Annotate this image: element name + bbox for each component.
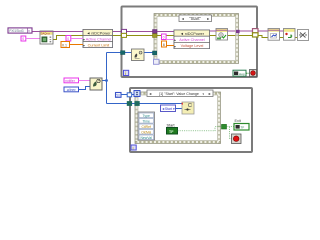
while loop top	[122, 7, 258, 78]
svg-text:CtlRef: CtlRef	[141, 125, 150, 129]
tunnel olive loop-right	[253, 33, 259, 37]
event data node	[138, 112, 155, 140]
event structure bottom border	[135, 92, 221, 144]
tunnel teal event-left (notifier)	[153, 51, 157, 55]
property node niDCPower (inner event case)	[174, 30, 210, 49]
wire green branch to stop	[230, 127, 232, 139]
wire pink to init icon	[26, 38, 40, 40]
tunnel purple loop-left	[122, 29, 127, 33]
svg-text:0: 0	[22, 37, 24, 41]
svg-text:"Start": "Start"	[189, 16, 201, 21]
wire pink inner	[166, 39, 174, 41]
event header top: "Start"	[179, 15, 212, 22]
Start control refnum	[161, 105, 176, 112]
svg-text:Type: Type	[143, 114, 150, 118]
svg-text:Exit: Exit	[235, 119, 242, 123]
wire refnum stub	[176, 108, 183, 110]
svg-text:8: 8	[163, 43, 165, 47]
svg-text:0: 0	[67, 37, 69, 41]
wire orange inner	[167, 45, 175, 47]
svg-text:OldVal: OldVal	[141, 130, 151, 134]
loop condition terminal (top loop)	[250, 70, 257, 77]
svg-text:NewVal: NewVal	[140, 136, 152, 140]
wire pink to property node	[71, 38, 83, 40]
svg-text:stop: stop	[239, 72, 245, 76]
tunnel blue event-left (timeout feed)	[154, 59, 160, 64]
purple junction (event right)	[236, 30, 240, 33]
event structure top border	[154, 14, 239, 64]
iteration terminal i (top loop)	[124, 70, 129, 76]
svg-text:◄ niDCPower: ◄ niDCPower	[86, 31, 111, 35]
property node niDCPower (outer)	[83, 30, 113, 48]
svg-text:Active Channel: Active Channel	[86, 37, 112, 41]
wire error olive main	[53, 36, 298, 40]
svg-text:i: i	[133, 145, 134, 150]
svg-text:0.1: 0.1	[62, 43, 67, 47]
svg-text:Time: Time	[142, 119, 150, 123]
wire green to condition	[246, 72, 250, 74]
close VI icon 2	[284, 29, 296, 41]
notifier string constant	[64, 78, 79, 83]
orange constant 0.1	[61, 42, 70, 48]
event header bottom: [1] "Start": Value Change	[147, 90, 213, 97]
tunnel blue event-left (ref)	[135, 102, 140, 106]
tunnel blue loop-left (wait wire)	[121, 51, 125, 55]
simple error handler box	[298, 30, 309, 41]
svg-text:0: 0	[163, 36, 165, 40]
stop button terminal (top loop)	[233, 70, 246, 76]
timeout hourglass terminal	[134, 91, 140, 97]
svg-text:PXI1Slot3: PXI1Slot3	[9, 29, 23, 33]
Wait (ms) icon	[132, 49, 145, 61]
close VI icon 1	[268, 29, 280, 41]
svg-text:TF: TF	[241, 126, 245, 130]
svg-text:►: ►	[208, 92, 211, 96]
while loop bottom	[130, 88, 252, 152]
svg-text:◄line▾: ◄line▾	[66, 88, 76, 92]
timeout constant bottom	[116, 93, 122, 98]
VI icon inner (configure/initiate)	[216, 29, 228, 41]
wire pink notifier	[79, 80, 91, 82]
svg-text:50: 50	[116, 94, 120, 98]
wire green start to tunnel	[178, 127, 222, 131]
Exit boolean terminal	[234, 119, 249, 130]
wire blue numeric vertical trunk	[102, 53, 182, 104]
property value node icon (yellow)	[182, 102, 194, 114]
tunnel purple event-left	[153, 30, 158, 34]
tunnel olive event-left	[153, 34, 158, 38]
obtain notifier VI icon	[90, 78, 102, 90]
svg-text:◄ niDCPower: ◄ niDCPower	[180, 32, 205, 36]
svg-text:◄Start ▾: ◄Start ▾	[162, 107, 175, 111]
svg-text:Current Limit: Current Limit	[88, 43, 111, 47]
svg-text:◄: ◄	[149, 92, 152, 96]
svg-text:Voltage Level: Voltage Level	[181, 44, 204, 48]
ring constant line	[64, 87, 79, 92]
Start boolean terminal	[167, 124, 178, 134]
svg-text:notifier: notifier	[65, 79, 76, 83]
svg-text:i: i	[125, 71, 126, 76]
wire blue ring to icon	[79, 87, 91, 90]
orange constant inner 8	[162, 41, 167, 47]
svg-text:►: ►	[207, 17, 210, 21]
pink constant small (device)	[21, 36, 26, 41]
loop condition terminal (bottom loop)	[232, 134, 242, 144]
wire purple overlay across icon bands	[40, 30, 280, 31]
wire blue timeout	[121, 94, 134, 96]
iteration terminal i (bottom loop)	[131, 145, 136, 150]
pink constant inner	[162, 34, 167, 40]
tunnel green event-right	[222, 124, 227, 129]
wire purple session main	[32, 30, 284, 33]
tunnel purple loop-right	[253, 29, 259, 33]
wire orange to property node	[70, 44, 84, 46]
svg-text:◄: ◄	[181, 17, 184, 21]
wire green tunnel to Exit	[227, 126, 235, 128]
pink constant for Active Channel (outer)	[66, 36, 71, 42]
niDCPower Initialize VI icon	[40, 31, 53, 44]
svg-text:Active Channel: Active Channel	[179, 38, 205, 42]
tunnel blue bottom-loop-left (ref)	[127, 102, 132, 106]
svg-text:[1] "Start": Value Change: [1] "Start": Value Change	[159, 92, 199, 96]
IO name constant PXI1Slot	[8, 28, 32, 33]
tunnel blue bottom-loop-left (timeout)	[127, 93, 132, 97]
tunnel olive loop-left	[122, 33, 127, 37]
